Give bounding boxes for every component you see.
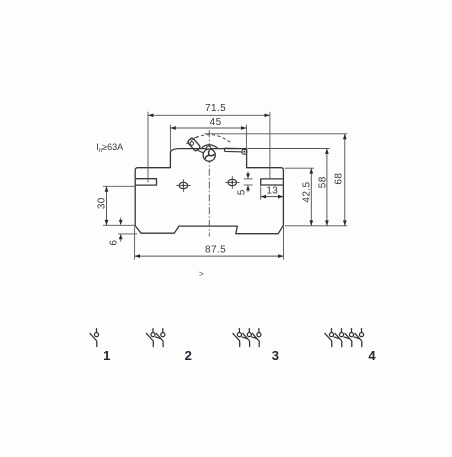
pivot top small circle (207, 146, 211, 150)
svg-text:4: 4 (368, 348, 376, 363)
svg-text:2: 2 (185, 348, 192, 363)
DIN rail tab left (135, 179, 156, 185)
dim 13 (260, 186, 262, 200)
dim 30 (103, 185, 135, 187)
knob tip line (194, 136, 199, 139)
pivot circle U (203, 149, 215, 161)
toggle knob (187, 137, 201, 151)
svg-text:68: 68 (333, 173, 344, 185)
svg-text:>: > (199, 269, 204, 279)
svg-text:58: 58 (318, 176, 329, 188)
svg-text:87.5: 87.5 (205, 244, 226, 255)
symbol 3-pole (233, 328, 261, 347)
knob tail to pivot (197, 150, 205, 153)
dim 42.5 (285, 167, 315, 169)
arm end circle (242, 149, 247, 154)
svg-text:6: 6 (108, 240, 119, 246)
svg-text:13: 13 (266, 185, 278, 196)
mounting hole right (228, 179, 237, 185)
svg-text:42.5: 42.5 (302, 182, 313, 203)
body outline (135, 149, 283, 234)
pivot triskelion (205, 150, 214, 159)
symbol 4-pole (325, 328, 364, 347)
svg-text:1: 1 (103, 348, 110, 363)
symbol 1-pole (90, 328, 99, 347)
centerline (208, 130, 210, 236)
svg-text:5: 5 (236, 189, 247, 195)
svg-text:30: 30 (96, 197, 107, 209)
dim 45 (169, 125, 171, 151)
toggle travel dashed arc (186, 135, 231, 144)
dim 58 (248, 148, 330, 150)
dim 87.5 (134, 227, 136, 260)
mounting hole left (179, 182, 188, 188)
dim 71.5 (147, 112, 149, 183)
svg-text:3: 3 (272, 348, 279, 363)
dim 6 (118, 233, 137, 235)
DIN rail notch right (261, 179, 284, 185)
lever boss arc (202, 145, 218, 148)
symbol 2-pole (146, 328, 165, 347)
interlock arm (224, 148, 244, 152)
svg-text:71.5: 71.5 (205, 103, 226, 114)
dim 68 (204, 133, 347, 135)
svg-text:45: 45 (210, 117, 222, 128)
dim 5 (244, 178, 253, 180)
